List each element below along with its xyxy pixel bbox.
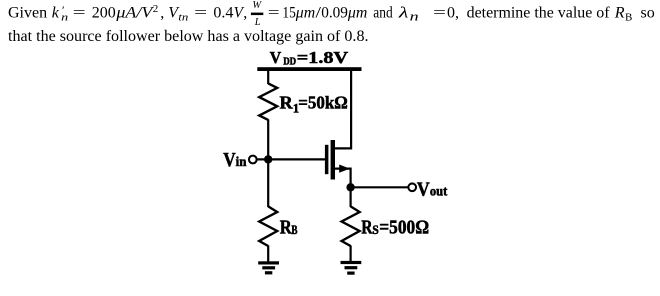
label RS=500Ohm: [361, 217, 429, 239]
node gate junction dot: [264, 155, 272, 163]
svg-text:V: V: [417, 178, 430, 200]
wire RS bottom to ground: [350, 246, 352, 263]
svg-text:out: out: [430, 183, 448, 198]
VDD rail: [257, 67, 361, 71]
svg-text:S: S: [372, 223, 378, 237]
svg-text:B: B: [625, 12, 632, 24]
svg-text:μA/V: μA/V: [115, 5, 155, 22]
svg-text:V: V: [223, 149, 236, 171]
wire gate horizontal: [257, 158, 325, 160]
terminal Vout circle: [408, 183, 416, 191]
svg-text:and: and: [373, 5, 392, 22]
svg-text:,: ,: [243, 5, 247, 22]
svg-text:=1.8V: =1.8V: [297, 48, 349, 67]
terminal Vin circle: [249, 156, 257, 164]
label RB: [280, 217, 298, 239]
svg-text:n: n: [61, 12, 69, 24]
svg-text:0,: 0,: [447, 5, 459, 22]
node source junction dot: [346, 183, 354, 191]
resistor RB: [259, 206, 277, 246]
svg-text:λ: λ: [398, 5, 409, 22]
fraction W over L: bar: [251, 13, 263, 16]
svg-text:Given: Given: [8, 5, 47, 22]
resistor RS: [342, 206, 360, 246]
svg-text:,: ,: [160, 5, 164, 22]
svg-text:in: in: [236, 154, 247, 169]
wire source node to Vout: [351, 186, 408, 188]
label VDD=1.8V: [270, 48, 349, 67]
svg-text:R: R: [280, 217, 292, 239]
svg-text:k: k: [52, 5, 60, 22]
svg-text:that the source follower below: that the source follower below has a vol…: [8, 28, 369, 45]
svg-text:=: =: [73, 5, 86, 22]
label R1=50kOhm: [280, 93, 348, 116]
svg-text:15: 15: [282, 5, 295, 22]
wire rail to R1 top: [267, 68, 269, 84]
wire source node to RS top: [350, 186, 352, 207]
wire gate node to RB top: [267, 158, 269, 207]
ground left: [258, 261, 279, 274]
label Vout: [417, 178, 448, 200]
svg-text:determine the value of: determine the value of: [467, 5, 611, 22]
svg-text:0.09: 0.09: [321, 5, 348, 22]
svg-text:V: V: [270, 48, 282, 67]
wire R1 bottom to gate node: [267, 119, 269, 160]
transistor Q1 drain lead: [335, 68, 351, 148]
svg-text:DD: DD: [283, 56, 296, 67]
svg-text:=500Ω: =500Ω: [379, 217, 429, 239]
svg-text:200: 200: [92, 5, 116, 22]
svg-text:n: n: [410, 9, 419, 24]
svg-text:B: B: [291, 223, 297, 237]
svg-text:so: so: [641, 5, 655, 22]
svg-text:=: =: [268, 5, 280, 22]
svg-text:L: L: [254, 17, 261, 28]
transistor Q1 source arrow: [339, 165, 350, 173]
svg-text:0.4: 0.4: [213, 5, 233, 22]
resistor R1: [259, 83, 277, 120]
svg-text:R: R: [361, 217, 373, 239]
transistor Q1 channel bar: [331, 140, 335, 180]
svg-text:=: =: [433, 5, 446, 22]
ground right: [341, 261, 362, 275]
svg-text:tn: tn: [178, 12, 189, 24]
svg-text:R: R: [280, 93, 294, 113]
transistor Q1 gate bar: [325, 145, 329, 174]
svg-text:W: W: [252, 0, 262, 11]
transistor Q1 source lead: [335, 169, 351, 188]
svg-text:R: R: [614, 5, 625, 22]
svg-text:=50kΩ: =50kΩ: [298, 93, 348, 113]
svg-text:μm: μm: [347, 5, 367, 22]
wire RB bottom to ground: [267, 246, 269, 263]
svg-text:μm: μm: [295, 5, 315, 22]
svg-text:=: =: [194, 5, 207, 22]
svg-text:2: 2: [153, 3, 159, 15]
label Vin: [223, 149, 247, 171]
